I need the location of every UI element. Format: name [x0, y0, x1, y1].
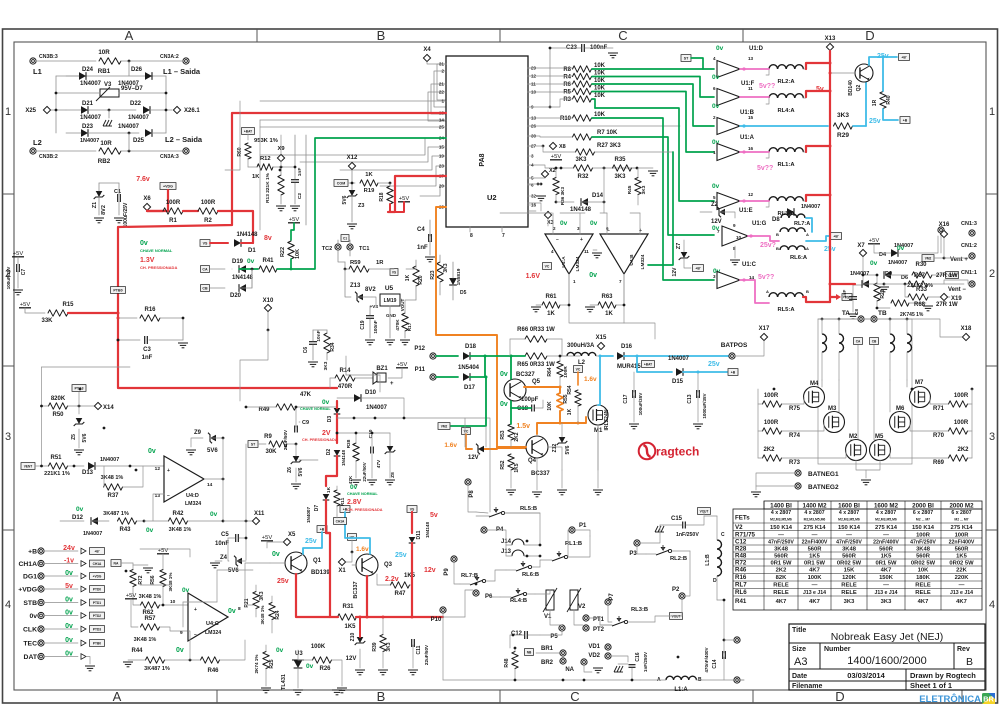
svg-text:560R: 560R: [916, 554, 931, 560]
svg-text:0v: 0v: [176, 647, 184, 654]
pad right rail 1: [724, 637, 740, 643]
wire cyan U1:B through R29: [740, 125, 828, 127]
resistor R75 100R: [758, 393, 804, 412]
svg-text:560R: 560R: [842, 554, 857, 560]
svg-text:7: 7: [502, 233, 505, 239]
svg-text:CB: CB: [202, 286, 208, 290]
svg-text:R28: R28: [735, 546, 747, 553]
relay coil RL7:A: [781, 214, 810, 227]
svg-text:100R: 100R: [954, 393, 969, 399]
svg-text:C4: C4: [417, 227, 425, 233]
svg-text:R6: R6: [563, 82, 571, 88]
svg-text:C5: C5: [221, 532, 229, 538]
voltage label 0v U4:B: [589, 272, 597, 279]
voltage label 2.8v labels Q3: [347, 484, 383, 512]
svg-text:0v: 0v: [76, 506, 84, 513]
svg-text:R26: R26: [319, 666, 331, 672]
net label VS D11 column: [407, 506, 438, 533]
svg-text:47nF/250V: 47nF/250V: [768, 540, 794, 546]
wire magenta U1:D to RL2:A: [740, 68, 769, 70]
resistor R40 1R vertical: [872, 56, 892, 109]
svg-text:RL4:B: RL4:B: [510, 598, 527, 604]
pad P5: [550, 625, 565, 640]
capacitor C14 470nF/400V: [704, 600, 725, 680]
svg-text:VS: VS: [410, 507, 415, 511]
wire magenta U1:G to RL6:A: [748, 236, 779, 241]
resistor R21 3K3 vertical: [244, 585, 265, 617]
diode D3 1N4148 vertical: [327, 401, 340, 422]
pad P8: [465, 479, 476, 512]
svg-text:D6: D6: [901, 275, 908, 281]
svg-text:CH1A: CH1A: [18, 561, 37, 568]
svg-text:22nF/400V: 22nF/400V: [873, 540, 899, 546]
buffer U1:G: [712, 221, 767, 251]
net label CA transformer: [850, 338, 863, 440]
svg-text:R66 0R33 1W: R66 0R33 1W: [517, 327, 555, 333]
svg-text:VD1: VD1: [588, 644, 600, 650]
voltage label 5v?? U1:C: [758, 274, 774, 281]
wire green R41 node to right: [291, 138, 446, 269]
svg-text:DG1: DG1: [23, 574, 37, 581]
frame column label A bottom: [113, 689, 122, 704]
wire red +VDG feed: [147, 190, 168, 211]
MOSFET M2: [846, 434, 867, 461]
svg-text:D5: D5: [460, 290, 467, 296]
resistor R31 1K5: [338, 604, 357, 630]
resistor R36 3K3 vertical: [528, 167, 565, 205]
voltage label 0v chave normal: [140, 240, 173, 253]
svg-text:0v: 0v: [590, 220, 598, 227]
svg-text:VS: VS: [392, 270, 396, 274]
svg-text:Q5: Q5: [532, 379, 541, 385]
resistor R74 100R: [758, 420, 824, 439]
capacitor C5 10nF: [215, 532, 247, 547]
svg-text:1N4007: 1N4007: [83, 531, 102, 537]
svg-text:100uF/35V: 100uF/35V: [638, 392, 643, 416]
diode D18 1N5404: [436, 344, 513, 371]
voltage label 0v U4:D: [148, 448, 156, 455]
svg-text:1K: 1K: [365, 172, 373, 178]
svg-text:L1:A: L1:A: [674, 687, 688, 693]
svg-text:10: 10: [736, 235, 742, 240]
net label +B Z7: [693, 265, 704, 272]
svg-text:8v: 8v: [264, 235, 272, 242]
relay contact RL3:B: [600, 607, 655, 626]
wire red RL2:A to bus: [806, 63, 830, 69]
svg-text:C18: C18: [517, 406, 529, 412]
wire red RL5:A to bus and VS: [803, 63, 841, 302]
svg-text:1N4007: 1N4007: [80, 81, 102, 87]
IC U5 LM19 regulator: [370, 285, 405, 311]
svg-text:R43: R43: [119, 527, 131, 533]
svg-text:PTD2: PTD2: [93, 614, 101, 618]
connector row 0v: [29, 610, 104, 621]
svg-text:X13: X13: [825, 36, 836, 42]
node X5: [267, 532, 296, 546]
title block Sheet field: [910, 681, 952, 690]
title block Filename field: [792, 683, 822, 690]
svg-text:+5V: +5V: [289, 217, 300, 223]
svg-text:1K5: 1K5: [809, 554, 820, 560]
svg-text:4K7: 4K7: [956, 599, 967, 605]
wire relay mesh 5: [608, 525, 690, 622]
svg-text:U1:E: U1:E: [739, 208, 753, 214]
svg-text:300uH/3A: 300uH/3A: [567, 343, 595, 349]
svg-text:C15: C15: [671, 516, 683, 522]
wire red Q3 emitter down: [366, 576, 369, 619]
svg-text:27R 1W: 27R 1W: [936, 273, 958, 279]
voltage label 0v D6: [897, 245, 905, 252]
svg-text:C7: C7: [21, 269, 27, 276]
voltage label 25v Q2 top: [877, 53, 889, 60]
capacitor C16 1nF/250V: [614, 651, 648, 680]
svg-text:RL6:B: RL6:B: [522, 572, 539, 578]
resistor R43 3K487 1%: [103, 511, 145, 533]
inductor L1:B vertical: [705, 516, 725, 600]
connector CN3B:2: [30, 148, 58, 160]
svg-text:3K3: 3K3: [641, 185, 647, 194]
svg-text:P9: P9: [444, 568, 450, 576]
svg-text:D23: D23: [82, 124, 94, 130]
svg-text:R68: R68: [914, 302, 926, 308]
svg-text:U1:A: U1:A: [740, 135, 755, 141]
svg-text:5V6: 5V6: [565, 445, 571, 454]
svg-text:3K48 1%: 3K48 1%: [169, 527, 192, 533]
node X16: [939, 222, 950, 238]
svg-text:2.8V: 2.8V: [347, 499, 362, 506]
node X9: [277, 135, 285, 167]
U2 left pin numbers: [439, 62, 446, 210]
svg-text:PTD0: PTD0: [93, 587, 101, 591]
svg-text:3K3: 3K3: [386, 642, 392, 651]
op-amp U4:A LM324: [545, 213, 624, 323]
svg-text:CLK: CLK: [23, 627, 37, 634]
svg-text:0v: 0v: [500, 371, 508, 378]
svg-text:1N4007: 1N4007: [888, 260, 907, 266]
svg-text:1nF: 1nF: [417, 245, 428, 251]
svg-text:0v: 0v: [148, 448, 156, 455]
svg-text:C3: C3: [143, 347, 151, 353]
diode D12 1N4007: [60, 515, 109, 537]
svg-text:X8: X8: [559, 144, 566, 150]
resistor R30 221K2 1%: [907, 262, 944, 289]
voltage label 0v U4:C out: [228, 608, 236, 615]
title block Title field: [792, 627, 806, 634]
svg-text:R73: R73: [789, 460, 801, 466]
power +5V X8: [550, 154, 562, 160]
resistor R62 3K48 1%: [133, 594, 188, 616]
svg-text:D: D: [713, 578, 717, 584]
wire red vertical to lower area: [118, 313, 337, 388]
wire relay mesh 1: [476, 512, 541, 557]
svg-text:R48: R48: [735, 553, 747, 560]
svg-text:D: D: [835, 689, 844, 704]
svg-text:1N5404: 1N5404: [458, 365, 480, 371]
svg-text:R2: R2: [204, 218, 212, 224]
svg-text:VC: VC: [545, 264, 550, 268]
svg-text:X10: X10: [263, 298, 274, 304]
connector CN3A:3: [160, 148, 189, 160]
svg-text:CH. PRESSIONADA: CH. PRESSIONADA: [302, 438, 338, 442]
voltage label 2V ch pressionada: [302, 430, 338, 442]
svg-text:120K: 120K: [842, 575, 857, 581]
capacitor C15 1nF/250V: [655, 516, 704, 538]
wire relay mesh 4: [540, 610, 600, 635]
svg-text:RELE: RELE: [915, 583, 931, 589]
svg-text:1N4007: 1N4007: [801, 204, 820, 210]
transformer primary top bus: [818, 318, 912, 321]
svg-text:13: 13: [748, 56, 754, 61]
svg-text:CH. PRESSIONADA: CH. PRESSIONADA: [140, 265, 177, 270]
resistor RB2 10R: [36, 133, 183, 165]
svg-text:4K7: 4K7: [918, 599, 929, 605]
net label VENT: [21, 463, 48, 470]
connector ring vent top: [938, 227, 944, 253]
svg-text:R41: R41: [735, 598, 747, 605]
svg-text:3: 3: [989, 431, 995, 443]
svg-text:R13 221K 1%: R13 221K 1%: [265, 172, 271, 203]
svg-text:4 x 2807: 4 x 2807: [876, 510, 896, 516]
svg-text:+B': +B': [95, 549, 100, 553]
svg-text:U1:C: U1:C: [742, 262, 757, 268]
MOSFET M6: [890, 380, 911, 433]
net label +BAT R60: [242, 128, 255, 140]
wire gray R72 rail to P pads: [140, 549, 190, 585]
node X3: [528, 203, 554, 226]
svg-text:10K: 10K: [547, 401, 553, 411]
svg-text:14: 14: [207, 482, 213, 488]
svg-text:—: —: [883, 583, 889, 589]
svg-text:C: C: [570, 689, 579, 704]
net label VOUT right: [946, 272, 959, 279]
svg-text:COM: COM: [337, 181, 345, 185]
svg-text:M2,M3,M5,M6: M2,M3,M5,M6: [838, 518, 860, 522]
svg-text:R47: R47: [394, 591, 406, 597]
svg-text:R61: R61: [545, 294, 557, 300]
svg-text:R49: R49: [258, 407, 270, 413]
wire U4:D output rail: [204, 438, 224, 521]
voltage label 25v Q3: [395, 552, 407, 559]
resistor R60 953K 1% vertical: [237, 138, 278, 167]
svg-text:J13 e J14: J13 e J14: [874, 590, 897, 596]
wire cyan RL6:A to +B: [806, 218, 831, 241]
svg-text:X12: X12: [347, 155, 358, 161]
wire green g7 R7 to U1:G: [592, 137, 714, 235]
svg-text:4: 4: [989, 599, 995, 611]
svg-text:R70: R70: [933, 433, 945, 439]
capacitor C6 10nF: [268, 312, 322, 367]
svg-text:1N5819: 1N5819: [456, 268, 462, 285]
svg-text:RL5:B: RL5:B: [520, 506, 537, 512]
svg-text:3K48: 3K48: [916, 547, 931, 553]
svg-text:11: 11: [584, 249, 589, 254]
svg-text:TA: TA: [842, 310, 850, 317]
svg-text:D12: D12: [72, 515, 84, 521]
net label PTA3 left: [72, 385, 86, 406]
svg-text:C16: C16: [635, 652, 641, 661]
svg-text:9: 9: [180, 630, 183, 636]
wire green g2 to U1:F: [592, 77, 714, 98]
svg-text:RL1:B: RL1:B: [565, 541, 582, 547]
node X15: [596, 335, 607, 350]
svg-text:0v: 0v: [247, 258, 255, 265]
svg-text:R19: R19: [364, 188, 375, 194]
svg-text:22uF/50V: 22uF/50V: [283, 429, 288, 450]
resistor R39 3K3 vertical: [372, 616, 392, 675]
resistor R4 10K: [563, 71, 605, 81]
connector row STB: [23, 597, 104, 608]
svg-text:5v: 5v: [430, 512, 438, 519]
IC U2 PA8 microcontroller block: [446, 56, 528, 239]
svg-text:47V: 47V: [376, 459, 382, 468]
svg-text:P11: P11: [415, 367, 426, 373]
frame column label D bottom: [835, 689, 844, 704]
transistor Q3 BC337: [352, 554, 393, 599]
svg-text:+B': +B': [901, 55, 906, 59]
svg-text:R15: R15: [62, 302, 74, 308]
resistor R10 10K: [560, 112, 606, 122]
node X8 and resistor R27 3K3: [528, 142, 673, 155]
svg-text:1K: 1K: [252, 174, 260, 180]
resistor R24 3K48 1% vertical: [260, 596, 281, 633]
svg-text:RL5:A: RL5:A: [777, 307, 795, 313]
svg-text:100R: 100R: [201, 200, 216, 206]
voltage label 0v Q5 base: [500, 371, 508, 378]
svg-text:Q3: Q3: [384, 562, 393, 568]
svg-text:A: A: [125, 28, 134, 43]
svg-text:ST: ST: [684, 56, 689, 60]
svg-text:CH1A: CH1A: [336, 519, 345, 523]
svg-text:RL3:B: RL3:B: [631, 607, 648, 613]
svg-text:IRLZ24N: IRLZ24N: [604, 409, 610, 430]
svg-text:X15: X15: [596, 335, 607, 341]
voltage label 1.5v: [516, 423, 530, 430]
svg-text:0v: 0v: [500, 401, 508, 408]
voltage label 0v D12: [76, 506, 84, 513]
FETs configuration table grid: [733, 501, 982, 610]
svg-text:CH. PRESSIONADA: CH. PRESSIONADA: [347, 508, 383, 512]
svg-text:R38: R38: [346, 439, 352, 448]
svg-text:25v: 25v: [305, 538, 317, 545]
voltage label 25v D15: [708, 361, 720, 368]
relay coil RL1:A: [766, 148, 806, 168]
pad P10: [431, 607, 446, 680]
svg-text:R22: R22: [280, 247, 286, 257]
net label +B Q3: [340, 506, 350, 513]
zener Z7 12V: [672, 240, 691, 276]
capacitor C17 100uF/35V: [623, 372, 643, 429]
svg-text:+B: +B: [320, 527, 325, 531]
svg-text:PTB0: PTB0: [113, 288, 122, 292]
svg-text:3K48 1%: 3K48 1%: [260, 606, 265, 625]
svg-text:R71: R71: [933, 406, 945, 412]
svg-text:470R: 470R: [338, 384, 353, 390]
svg-text:Z6: Z6: [287, 467, 293, 473]
svg-text:B: B: [776, 246, 779, 251]
net label PTD3: [458, 83, 471, 100]
svg-text:—: —: [959, 583, 965, 589]
svg-text:CN1:3: CN1:3: [961, 221, 977, 227]
voltage label 0v C18: [500, 401, 508, 408]
resistor R37 3K48 1%: [101, 466, 143, 499]
svg-text:1N4007: 1N4007: [306, 507, 311, 524]
svg-text:A3: A3: [794, 656, 807, 668]
svg-text:5v??: 5v??: [759, 83, 775, 90]
shunt regulator U3 TL431: [281, 650, 304, 695]
svg-text:12: 12: [748, 192, 754, 197]
svg-text:ragtech: ragtech: [656, 445, 699, 459]
svg-text:100R: 100R: [764, 393, 779, 399]
ground U4:A pin11: [592, 250, 602, 258]
frame row label 2 left: [5, 268, 11, 280]
wire PTD fan to U2 left pins: [428, 64, 509, 121]
svg-text:0v: 0v: [870, 260, 878, 267]
svg-text:R55: R55: [563, 394, 569, 403]
svg-text:LM324: LM324: [575, 256, 581, 271]
svg-text:3K3: 3K3: [614, 174, 626, 180]
svg-text:+VDG: +VDG: [18, 587, 37, 594]
svg-text:10nF: 10nF: [316, 330, 322, 341]
svg-text:11: 11: [748, 86, 753, 91]
svg-text:D26: D26: [131, 67, 143, 73]
svg-text:47nF/250V: 47nF/250V: [910, 540, 936, 546]
svg-text:R24: R24: [275, 610, 281, 619]
wire magenta U1:E to RL3:A: [740, 200, 769, 202]
node X7: [857, 243, 866, 285]
wire gray R18 to X12 rail: [389, 183, 391, 186]
svg-text:2000 BI: 2000 BI: [912, 502, 934, 509]
wire gray mid-bottom links: [465, 418, 486, 447]
svg-text:10R: 10R: [98, 49, 110, 56]
svg-text:22uF/50V: 22uF/50V: [362, 462, 367, 481]
op-amp U4:C LM324: [188, 593, 241, 641]
svg-text:D9: D9: [885, 271, 892, 277]
svg-text:B: B: [377, 28, 386, 43]
svg-text:3K487 1%: 3K487 1%: [144, 666, 170, 672]
svg-text:3: 3: [5, 431, 11, 443]
wire gray R46 link: [183, 570, 253, 627]
svg-text:R12: R12: [260, 156, 271, 162]
svg-text:B: B: [776, 232, 779, 237]
svg-text:8: 8: [470, 233, 473, 239]
svg-text:P12: P12: [414, 346, 425, 352]
svg-text:3K48 1%: 3K48 1%: [134, 637, 157, 643]
net label PTD2: [473, 83, 486, 107]
svg-text:R1: R1: [169, 218, 177, 224]
wire magenta U1:A to RL1:A: [740, 151, 769, 153]
svg-text:C17: C17: [623, 394, 629, 403]
svg-text:0v: 0v: [140, 240, 148, 247]
svg-text:U4:C: U4:C: [206, 621, 219, 627]
svg-text:P10: P10: [431, 617, 442, 623]
svg-text:30K: 30K: [265, 449, 277, 455]
resistor R49 47K: [245, 392, 337, 413]
capacitor C19 100nF: [360, 306, 378, 345]
resistor R68 27R 1W: [905, 284, 958, 308]
svg-text:U4:D: U4:D: [186, 493, 199, 499]
relay contact RL5:B: [476, 506, 540, 517]
diode D5 1N5819 vertical: [449, 262, 466, 300]
svg-text:V2: V2: [578, 604, 586, 610]
svg-text:0R1 5W: 0R1 5W: [771, 561, 792, 567]
svg-text:M2,M3,M5,M6: M2,M3,M5,M6: [770, 518, 792, 522]
wire red RL3:A to bus: [806, 195, 830, 201]
net label NB: [525, 649, 534, 656]
svg-text:25v: 25v: [277, 578, 289, 585]
svg-text:RELE: RELE: [915, 590, 931, 596]
svg-text:1.3V: 1.3V: [140, 257, 155, 264]
capacitor C18 100pF: [511, 397, 543, 412]
